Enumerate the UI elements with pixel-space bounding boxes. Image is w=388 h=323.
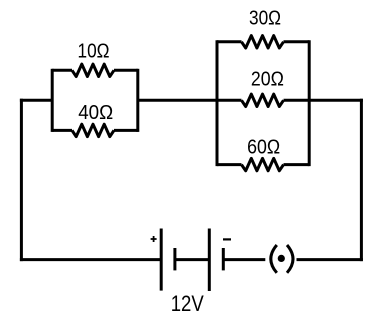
wire between battery cells [175,258,209,261]
node right rail of parallel triple (30/20/60) [308,40,311,166]
resistor R3 30ohm zigzag [242,36,284,48]
lamp right arc [287,245,293,273]
wire bottom branch leads (40 ohm) [52,129,138,132]
wire bottom-right horizontal [297,258,363,261]
battery plus sign [151,236,157,242]
svg-text:12V: 12V [171,291,204,316]
svg-text:60Ω: 60Ω [247,136,280,158]
wire right horizontal to corner [309,99,363,102]
wire bottom-left horizontal [20,258,161,261]
battery V1 plate short right [222,248,225,270]
wire top-left horizontal [20,99,52,102]
battery V1 plate long right [208,229,211,292]
wire middle horizontal between groups [138,99,217,102]
wire right vertical [360,99,363,261]
svg-text:30Ω: 30Ω [249,8,281,30]
wire bottom branch leads (60 ohm) [217,163,309,166]
node left rail of parallel triple (30/20/60) [216,40,219,166]
battery minus sign [223,238,231,240]
svg-text:10Ω: 10Ω [78,40,110,62]
wire top branch leads (30 ohm) [217,40,309,43]
wire battery to lamp [223,258,265,261]
wire top branch leads (10 ohm) [52,69,138,72]
svg-text:20Ω: 20Ω [251,69,284,91]
node left rail of parallel pair (10/40) [51,69,54,132]
wire middle branch leads (20 ohm) [217,99,309,102]
resistor R4 20ohm zigzag [242,94,284,106]
battery V1 plate long left [160,229,163,291]
battery V1 plate short left [173,248,176,270]
node right rail of parallel pair (10/40) [136,69,139,132]
wire left vertical [20,99,23,261]
svg-text:40Ω: 40Ω [78,102,113,124]
resistor R1 10ohm zigzag [72,64,114,76]
resistor R5 60ohm zigzag [242,158,284,170]
resistor R2 40ohm zigzag [72,124,114,136]
lamp center dot [278,255,285,262]
lamp left arc [271,245,277,273]
